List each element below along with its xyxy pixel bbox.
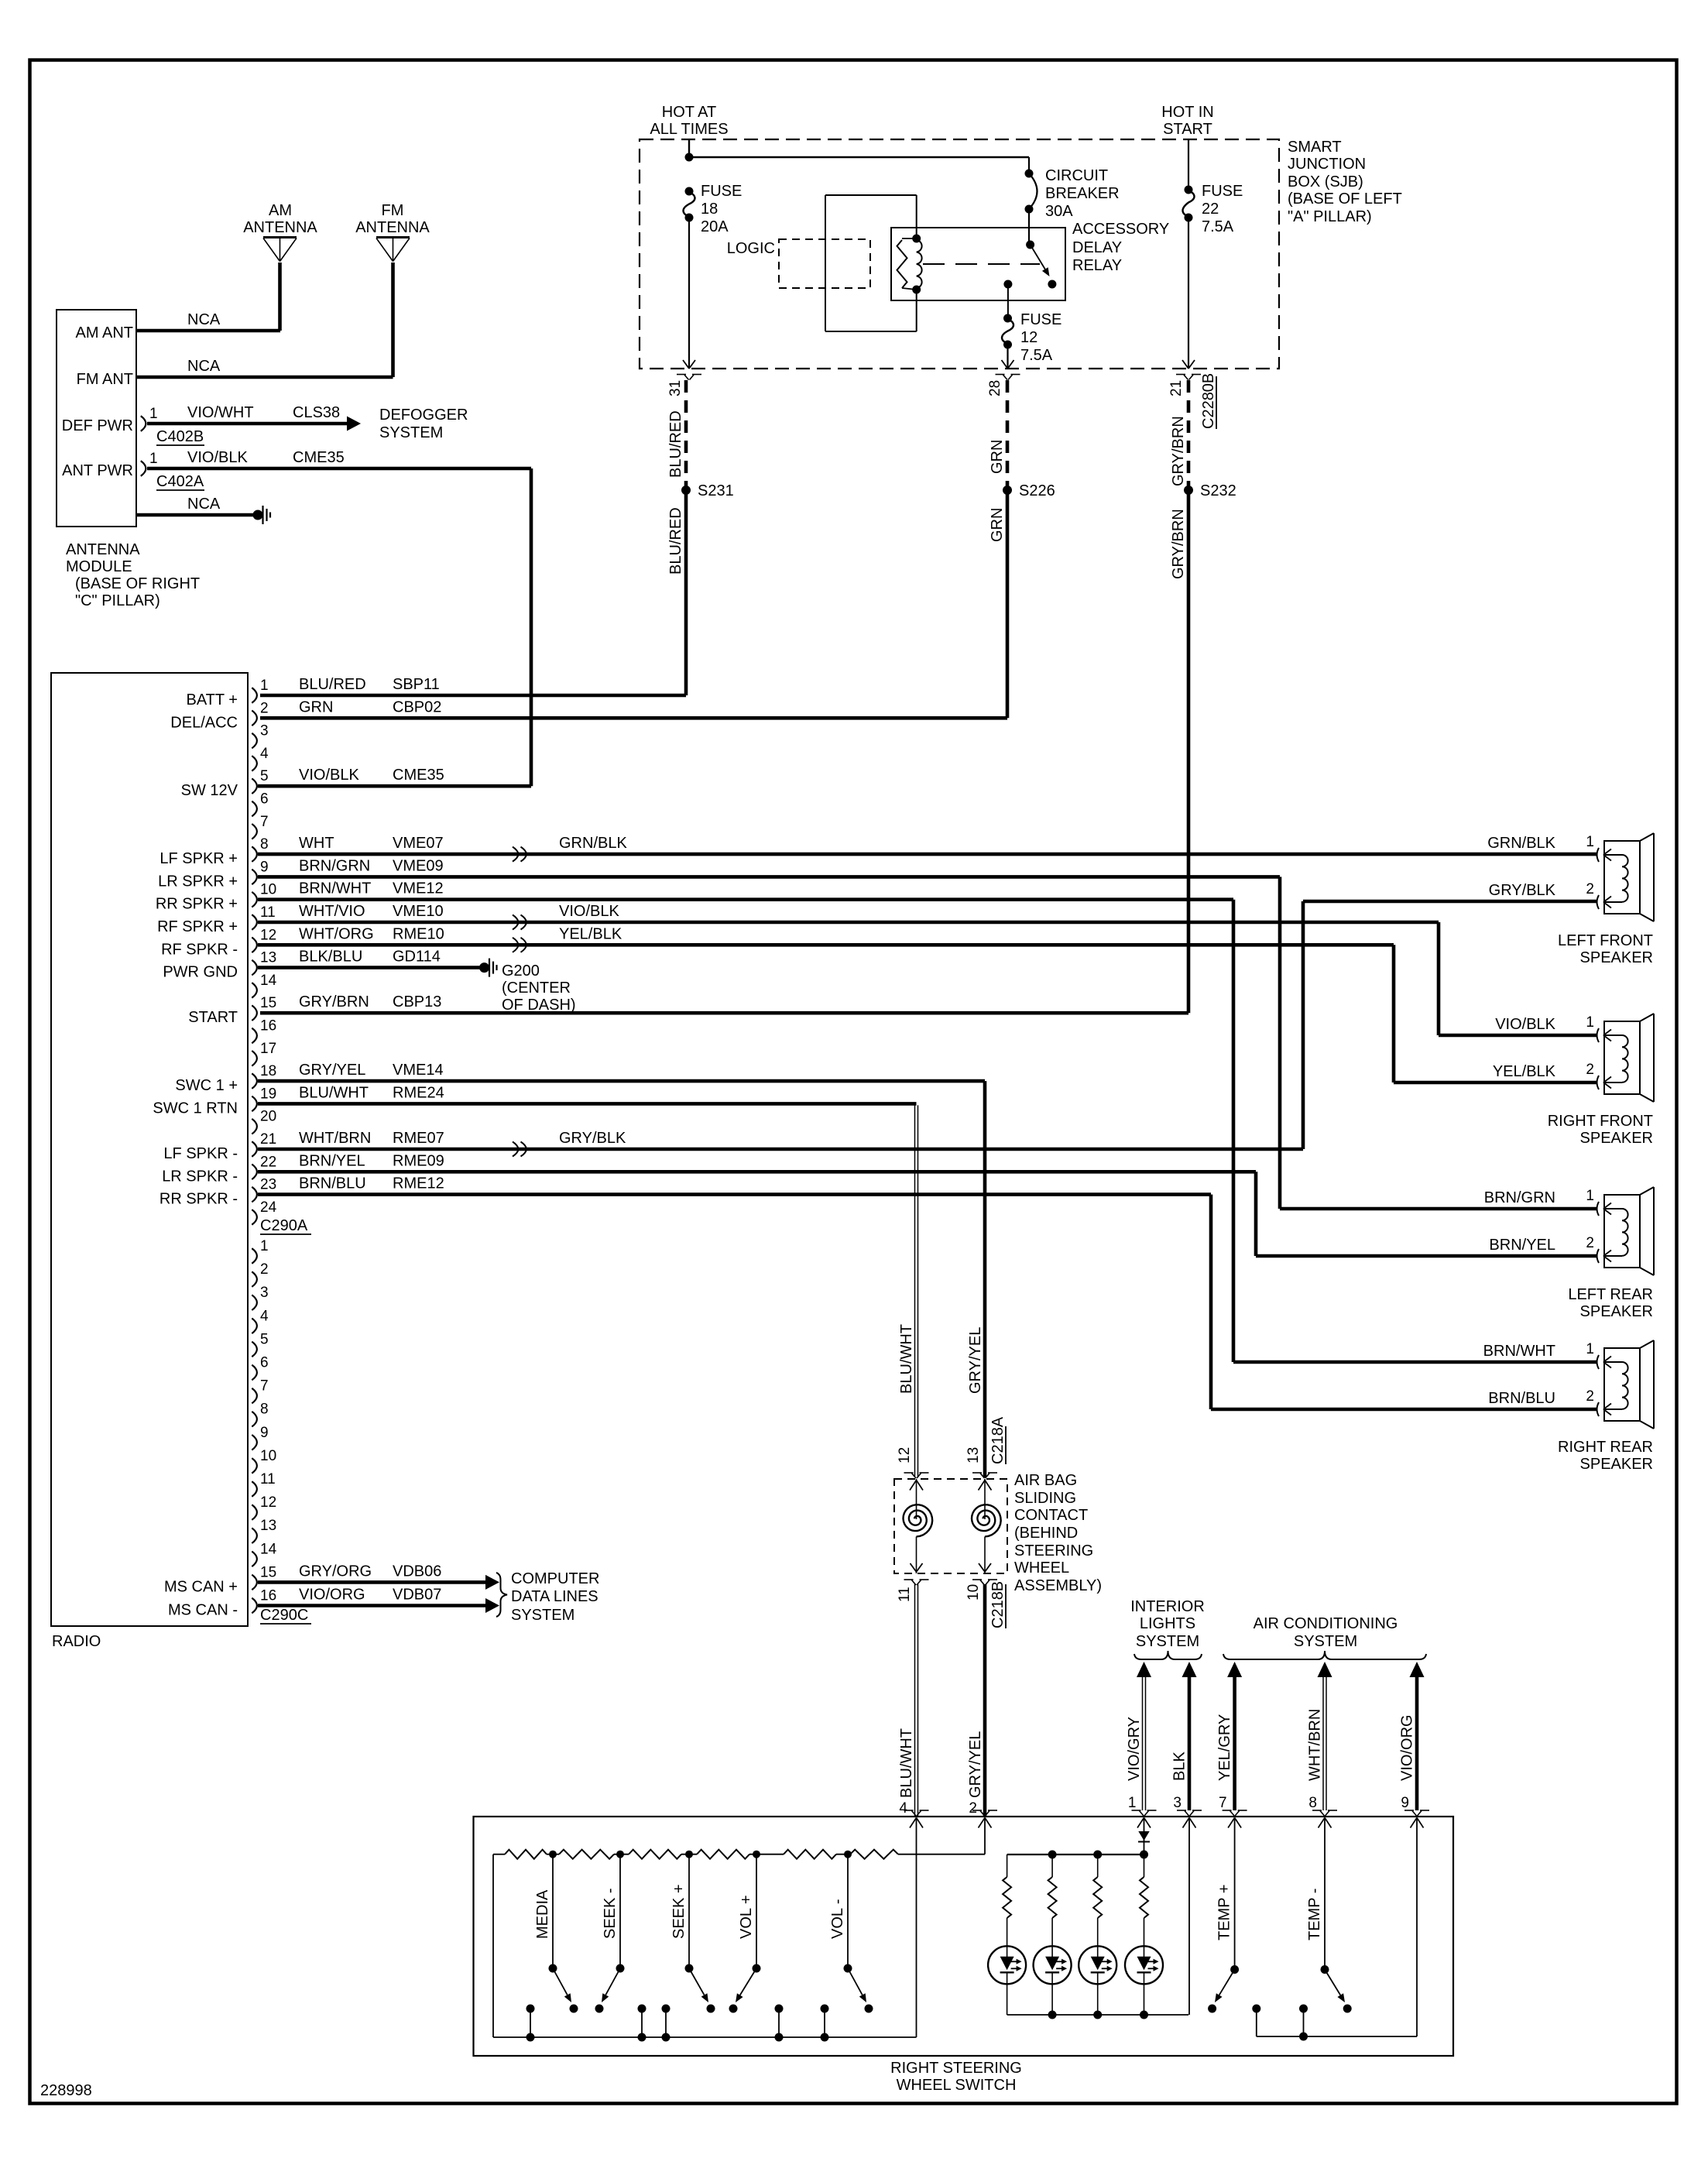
wire pin 18 GRY/YEL to steering wheel switch <box>258 1079 985 1083</box>
svg-text:VME07: VME07 <box>393 835 444 852</box>
chevrons pin 12 <box>513 938 519 952</box>
svg-text:CLS38: CLS38 <box>293 404 340 421</box>
wire pin 23 BRN/BLU to right rear speaker - <box>258 1192 1211 1196</box>
wire BRN/WHT into RR speaker <box>1233 1360 1597 1364</box>
fuse 18 20A <box>685 187 694 196</box>
svg-text:VIO/ORG: VIO/ORG <box>299 1587 365 1604</box>
svg-text:SWC 1 RTN: SWC 1 RTN <box>153 1100 238 1117</box>
wire pin 10 BRN/WHT to right rear speaker + <box>258 897 1233 901</box>
svg-text:3: 3 <box>260 723 269 739</box>
wire 28 GRN dashed <box>1006 380 1010 486</box>
svg-text:4: 4 <box>260 746 269 762</box>
svg-text:RME09: RME09 <box>393 1152 444 1169</box>
svg-text:VME14: VME14 <box>393 1062 444 1079</box>
connector mark wire 2 <box>972 1810 982 1811</box>
radio pin 6 (C290A) <box>252 801 257 817</box>
illumination LED 3 <box>1079 1946 1116 1984</box>
svg-text:SLIDING: SLIDING <box>1014 1490 1076 1507</box>
svg-text:BREAKER: BREAKER <box>1045 185 1120 202</box>
svg-text:18: 18 <box>260 1063 276 1079</box>
svg-text:GRY/BRN: GRY/BRN <box>1170 416 1187 486</box>
svg-text:ANTENNA: ANTENNA <box>243 219 317 236</box>
wire YEL/GRY to system (pin 7) <box>1227 1662 1242 1677</box>
wire VIO/BLK into RF speaker <box>1439 1034 1597 1038</box>
svg-text:GRY/BRN: GRY/BRN <box>1170 509 1187 579</box>
radio pin 11 (C290A) <box>252 914 257 930</box>
svg-text:S226: S226 <box>1019 482 1055 499</box>
svg-text:GRY/ORG: GRY/ORG <box>299 1563 372 1580</box>
ladder node SEEK+ <box>685 1851 693 1858</box>
svg-text:MS CAN +: MS CAN + <box>164 1578 238 1595</box>
pin 1 DEF PWR connector C402B <box>141 416 146 431</box>
wire 10 GRY/YEL to steering switch <box>983 1584 987 1817</box>
illumination LED 2 <box>1034 1946 1072 1984</box>
svg-text:2: 2 <box>260 700 269 716</box>
wire pin 21 WHT/BRN to left front speaker - <box>258 1148 1303 1151</box>
svg-text:LR SPKR -: LR SPKR - <box>162 1168 238 1185</box>
svg-text:BRN/WHT: BRN/WHT <box>1483 1343 1555 1360</box>
svg-text:17: 17 <box>260 1041 276 1057</box>
svg-text:BLU/RED: BLU/RED <box>667 507 684 575</box>
svg-text:1: 1 <box>1586 1188 1594 1204</box>
svg-text:GD114: GD114 <box>393 949 441 966</box>
svg-text:CBP02: CBP02 <box>393 698 441 715</box>
svg-text:11: 11 <box>260 1471 276 1487</box>
svg-text:7: 7 <box>1219 1795 1227 1811</box>
LED top bus <box>1007 1854 1144 1855</box>
ladder node VOL+ <box>753 1851 760 1858</box>
entry arrow into switch box <box>910 1818 917 1828</box>
radio pin 3 (C290C) <box>252 1295 257 1310</box>
wire DEF PWR VIO/WHT CLS38 <box>147 422 347 426</box>
wire CB to relay switch <box>1028 209 1030 245</box>
smart junction box (dashed) <box>640 139 1279 369</box>
entry arrow into switch box <box>1228 1818 1235 1828</box>
diode on VIO/GRY input <box>1144 1818 1145 1854</box>
svg-text:14: 14 <box>260 973 277 989</box>
svg-text:LIGHTS: LIGHTS <box>1140 1615 1195 1632</box>
svg-text:1: 1 <box>1586 1014 1594 1031</box>
switch VOL + <box>756 1854 757 1968</box>
svg-text:VME12: VME12 <box>393 880 444 897</box>
svg-text:6: 6 <box>260 1355 269 1371</box>
wire fuse 12 to exit 28 <box>1007 345 1008 368</box>
svg-text:JUNCTION: JUNCTION <box>1288 156 1366 173</box>
svg-text:7: 7 <box>260 814 269 830</box>
svg-text:10: 10 <box>965 1584 982 1601</box>
svg-text:2: 2 <box>1586 1062 1594 1078</box>
speaker body (BRN/WHT/BRN/BLU) <box>1604 1348 1640 1421</box>
svg-text:FUSE: FUSE <box>1020 311 1061 328</box>
svg-text:FUSE: FUSE <box>1202 183 1243 200</box>
svg-text:WHEEL: WHEEL <box>1014 1559 1069 1577</box>
connector marks at air bag contact bottom <box>904 1579 914 1580</box>
svg-text:FM: FM <box>382 202 404 219</box>
svg-text:VIO/BLK: VIO/BLK <box>1495 1016 1555 1033</box>
resistor ladder <box>493 1854 505 1855</box>
svg-text:START: START <box>1163 121 1212 138</box>
svg-text:MODULE: MODULE <box>66 558 132 575</box>
svg-text:SW 12V: SW 12V <box>181 782 238 799</box>
svg-text:C218A: C218A <box>989 1416 1007 1464</box>
svg-text:3: 3 <box>260 1285 269 1301</box>
svg-text:16: 16 <box>260 1018 276 1034</box>
svg-text:2: 2 <box>969 1800 977 1817</box>
switch SEEK + <box>688 1854 690 1968</box>
svg-text:FM ANT: FM ANT <box>77 371 133 388</box>
relay coil <box>912 235 921 243</box>
svg-text:12: 12 <box>1020 329 1037 346</box>
svg-text:18: 18 <box>701 201 718 218</box>
svg-text:NCA: NCA <box>187 311 221 328</box>
svg-text:CME35: CME35 <box>393 767 444 784</box>
svg-text:12: 12 <box>897 1447 913 1463</box>
speaker body (BRN/GRN/BRN/YEL) <box>1604 1195 1640 1268</box>
illumination LED 4 <box>1125 1946 1163 1984</box>
wire pin 9 BRN/GRN to left rear speaker + <box>258 875 1280 879</box>
svg-text:"C" PILLAR): "C" PILLAR) <box>75 592 160 609</box>
svg-text:VOL +: VOL + <box>738 1895 755 1939</box>
svg-text:DEL/ACC: DEL/ACC <box>170 714 238 731</box>
svg-text:RME12: RME12 <box>393 1175 444 1192</box>
svg-text:2: 2 <box>1586 881 1594 897</box>
svg-text:GRN/BLK: GRN/BLK <box>559 835 627 852</box>
svg-text:22: 22 <box>1202 201 1219 218</box>
LED bottom bus <box>1007 2014 1188 2016</box>
wire pin 8 WHT/GRN-BLK to left front speaker + <box>258 853 1597 856</box>
illumination resistor 3 <box>1097 1854 1099 1877</box>
svg-text:1: 1 <box>1128 1795 1137 1811</box>
svg-text:1: 1 <box>149 406 158 422</box>
radio pin 9 (C290A) <box>252 870 257 885</box>
svg-text:RME10: RME10 <box>393 925 444 942</box>
wire pin 12 WHT/ORG to right front speaker - <box>258 943 1394 947</box>
svg-text:BRN/GRN: BRN/GRN <box>299 857 370 874</box>
radio pin 14 (C290A) <box>252 983 257 998</box>
svg-text:14: 14 <box>260 1541 277 1557</box>
connector mark exit 28 <box>996 374 1005 376</box>
radio pin 20 (C290A) <box>252 1119 257 1134</box>
svg-text:WHT/BRN: WHT/BRN <box>1307 1709 1324 1781</box>
svg-text:VDB07: VDB07 <box>393 1587 441 1604</box>
ladder node SEEK- <box>616 1851 624 1858</box>
svg-text:BRN/BLU: BRN/BLU <box>1488 1390 1555 1407</box>
svg-text:BLK/BLU: BLK/BLU <box>299 949 362 966</box>
svg-text:C218B: C218B <box>989 1581 1007 1628</box>
wire 31 BLU/RED dashed <box>684 380 688 486</box>
svg-text:RIGHT REAR: RIGHT REAR <box>1558 1439 1653 1456</box>
svg-text:2: 2 <box>260 1261 269 1278</box>
brace interior lights system <box>1134 1651 1202 1659</box>
wire AM ANT NCA <box>136 329 280 333</box>
fuse 22 7.5A <box>1185 186 1193 194</box>
svg-text:BATT +: BATT + <box>186 691 238 709</box>
svg-text:SYSTEM: SYSTEM <box>511 1607 574 1624</box>
svg-text:GRN/BLK: GRN/BLK <box>1487 835 1555 852</box>
svg-text:VIO/ORG: VIO/ORG <box>1399 1714 1416 1781</box>
svg-text:5: 5 <box>260 1331 269 1347</box>
svg-text:BRN/YEL: BRN/YEL <box>299 1152 365 1169</box>
svg-text:4: 4 <box>899 1800 907 1817</box>
svg-text:DEFOGGER: DEFOGGER <box>379 407 468 424</box>
radio pin 13 (C290C) <box>252 1528 257 1543</box>
svg-text:GRY/BLK: GRY/BLK <box>1489 882 1556 899</box>
entry arrow into switch box <box>1319 1818 1326 1828</box>
svg-text:BRN/YEL: BRN/YEL <box>1489 1237 1555 1254</box>
svg-text:SWC 1 +: SWC 1 + <box>175 1077 238 1094</box>
wire VIO/GRY to system (pin 1) <box>1137 1662 1151 1677</box>
switch SEEK - <box>619 1854 621 1968</box>
speaker body (GRN/BLK/GRY/BLK) <box>1604 841 1640 914</box>
svg-text:BRN/WHT: BRN/WHT <box>299 880 371 897</box>
svg-text:BLU/RED: BLU/RED <box>299 676 366 693</box>
svg-text:C2280B: C2280B <box>1200 373 1217 429</box>
svg-text:13: 13 <box>260 1518 276 1534</box>
circuit breaker 30A <box>1025 170 1034 178</box>
svg-text:21: 21 <box>260 1131 276 1148</box>
wire fuse 22 to exit 21 <box>1188 218 1189 368</box>
radio pin 5 (C290C) <box>252 1342 257 1357</box>
svg-text:COMPUTER: COMPUTER <box>511 1570 599 1587</box>
wire FM ANT NCA <box>136 376 393 379</box>
wire BRN/YEL into LR speaker <box>1256 1254 1597 1258</box>
wire 21 GRY/BRN dashed <box>1187 380 1191 486</box>
radio pin 6 (C290C) <box>252 1365 257 1381</box>
chevrons pin 21 <box>513 1142 519 1157</box>
switch common bus <box>493 2036 917 2038</box>
svg-text:LEFT FRONT: LEFT FRONT <box>1558 932 1653 949</box>
entry arrow into switch box <box>1137 1818 1144 1828</box>
svg-text:MEDIA: MEDIA <box>534 1889 551 1939</box>
splice S231 <box>681 485 691 495</box>
wire fuse 18 to exit 31 <box>688 218 690 368</box>
wire ANT PWR VIO/BLK CME35 <box>147 467 531 471</box>
radio box <box>51 673 248 1626</box>
logic box (dashed) <box>779 239 870 288</box>
node LED branch 3 <box>1093 1851 1102 1859</box>
wire VIO/ORG to system (pin 9) <box>1410 1662 1425 1677</box>
svg-text:RR SPKR +: RR SPKR + <box>156 896 238 913</box>
svg-text:SBP11: SBP11 <box>393 676 440 693</box>
wire BRN/BLU into RR speaker <box>1211 1408 1597 1412</box>
radio pin 18 (C290A) <box>252 1073 257 1089</box>
ground G200 <box>479 962 489 973</box>
svg-text:CONTACT: CONTACT <box>1014 1507 1088 1524</box>
svg-text:C290A: C290A <box>260 1217 308 1234</box>
svg-text:INTERIOR: INTERIOR <box>1130 1598 1205 1615</box>
svg-text:28: 28 <box>987 380 1003 396</box>
svg-text:STEERING: STEERING <box>1014 1542 1093 1559</box>
clock spring right (wire 13) <box>979 1481 986 1491</box>
connector mark wire 4 <box>904 1810 914 1811</box>
svg-text:LR SPKR +: LR SPKR + <box>158 873 238 890</box>
svg-text:VDB06: VDB06 <box>393 1563 441 1580</box>
wire BRN/GRN into LR speaker <box>1280 1207 1597 1211</box>
svg-text:30A: 30A <box>1045 203 1073 220</box>
svg-text:(BASE OF RIGHT: (BASE OF RIGHT <box>75 575 200 592</box>
svg-text:1: 1 <box>260 678 269 694</box>
svg-text:23: 23 <box>260 1177 276 1193</box>
splice S226 <box>1003 485 1012 495</box>
radio pin 4 (C290A) <box>252 756 257 771</box>
brace computer data lines <box>496 1573 507 1617</box>
connector mark exit 31 <box>677 374 686 376</box>
svg-text:BLU/WHT: BLU/WHT <box>898 1728 915 1798</box>
wire BLK to system (pin 3) <box>1182 1662 1197 1677</box>
svg-text:19: 19 <box>260 1086 276 1102</box>
svg-text:GRY/YEL: GRY/YEL <box>967 1327 984 1394</box>
svg-text:7: 7 <box>260 1378 269 1395</box>
radio pin 8 (C290A) <box>252 846 257 862</box>
svg-text:13: 13 <box>260 950 276 966</box>
svg-text:1: 1 <box>1586 1341 1594 1357</box>
svg-text:FUSE: FUSE <box>701 183 742 200</box>
TEMP - switch <box>1324 1818 1326 1970</box>
svg-text:VIO/BLK: VIO/BLK <box>299 767 359 784</box>
svg-text:RR SPKR -: RR SPKR - <box>159 1191 238 1208</box>
wire pin 22 BRN/YEL to left rear speaker - <box>258 1170 1256 1174</box>
illumination resistor 4 <box>1144 1854 1145 1877</box>
svg-text:(BASE OF LEFT: (BASE OF LEFT <box>1288 190 1402 208</box>
svg-text:ACCESSORY: ACCESSORY <box>1072 221 1169 238</box>
radio pin 19 (C290A) <box>252 1096 257 1112</box>
svg-text:SPEAKER: SPEAKER <box>1580 1130 1653 1147</box>
svg-text:20A: 20A <box>701 218 729 235</box>
wire hot-at-all-times entry <box>688 139 690 157</box>
wire hot-in-start entry <box>1188 139 1189 190</box>
wire MS CAN - VIO/ORG VDB07 <box>258 1604 485 1607</box>
svg-text:DELAY: DELAY <box>1072 239 1122 256</box>
radio pin 15 (C290C) <box>252 1575 257 1590</box>
svg-text:SPEAKER: SPEAKER <box>1580 949 1653 966</box>
wire pin 19 BLU/WHT to air bag sliding contact <box>258 1102 917 1106</box>
svg-text:7.5A: 7.5A <box>1202 218 1234 235</box>
wire BLU/RED to radio pin 1 <box>684 490 688 695</box>
svg-text:8: 8 <box>260 836 269 853</box>
svg-text:HOT AT: HOT AT <box>662 104 716 121</box>
radio pin 5 (C290A) <box>252 778 257 794</box>
svg-text:CBP13: CBP13 <box>393 993 441 1010</box>
svg-text:BLU/RED: BLU/RED <box>667 410 684 478</box>
svg-text:BRN/BLU: BRN/BLU <box>299 1175 366 1192</box>
svg-text:LF SPKR +: LF SPKR + <box>159 850 238 867</box>
svg-text:OF DASH): OF DASH) <box>502 997 576 1014</box>
svg-text:GRY/BLK: GRY/BLK <box>559 1130 626 1147</box>
antenna module box <box>57 310 136 527</box>
chevrons pin 8 <box>513 847 519 862</box>
right steering wheel switch box <box>474 1817 1454 2056</box>
svg-text:RIGHT STEERING: RIGHT STEERING <box>890 2060 1022 2077</box>
wire YEL/BLK into RF speaker <box>1394 1081 1597 1085</box>
wire 2 GRY/YEL inside box <box>984 1818 986 1854</box>
svg-text:SYSTEM: SYSTEM <box>1136 1633 1199 1650</box>
svg-text:WHT/VIO: WHT/VIO <box>299 903 365 920</box>
node LED bottom 4 <box>1140 2011 1148 2019</box>
svg-text:21: 21 <box>1168 380 1185 396</box>
radio pin 10 (C290A) <box>252 892 257 908</box>
wire CME35 vertical to radio pin 5 <box>530 468 533 786</box>
radio pin 13 (C290A) <box>252 960 257 976</box>
relay coil feedback loop <box>825 194 917 196</box>
svg-text:6: 6 <box>260 791 269 808</box>
svg-text:31: 31 <box>667 380 684 396</box>
svg-text:10: 10 <box>260 1448 276 1464</box>
wire pin 13 BLK/BLU to ground G200 <box>258 966 480 969</box>
svg-text:228998: 228998 <box>40 2082 92 2099</box>
svg-text:8: 8 <box>1308 1795 1317 1811</box>
node junction at fuse 18 top <box>685 153 694 162</box>
radio pin 8 (C290C) <box>252 1412 257 1427</box>
svg-text:WHT/ORG: WHT/ORG <box>299 925 374 942</box>
svg-text:VIO/BLK: VIO/BLK <box>187 449 248 466</box>
svg-text:13: 13 <box>965 1447 982 1463</box>
svg-text:S232: S232 <box>1200 482 1236 499</box>
svg-text:AM ANT: AM ANT <box>76 324 133 341</box>
svg-text:15: 15 <box>260 1564 276 1580</box>
svg-text:MS CAN -: MS CAN - <box>168 1602 238 1619</box>
svg-text:NCA: NCA <box>187 496 221 513</box>
svg-text:(CENTER: (CENTER <box>502 980 571 997</box>
svg-text:SYSTEM: SYSTEM <box>379 424 443 441</box>
svg-text:GRY/YEL: GRY/YEL <box>299 1062 365 1079</box>
ladder node MEDIA <box>549 1851 557 1858</box>
svg-text:G200: G200 <box>502 962 540 980</box>
svg-text:AIR BAG: AIR BAG <box>1014 1472 1077 1489</box>
radio pin 14 (C290C) <box>252 1552 257 1567</box>
svg-text:GRN: GRN <box>989 440 1006 474</box>
svg-text:NCA: NCA <box>187 358 221 375</box>
svg-text:GRN: GRN <box>989 508 1006 542</box>
svg-text:C402A: C402A <box>156 473 204 490</box>
svg-text:YEL/BLK: YEL/BLK <box>1493 1063 1556 1080</box>
svg-text:TEMP +: TEMP + <box>1216 1885 1233 1940</box>
svg-text:YEL/BLK: YEL/BLK <box>559 925 622 942</box>
wire pin 11 WHT/VIO to right front speaker + <box>258 921 1439 925</box>
svg-text:VME10: VME10 <box>393 903 444 920</box>
switch VOL - <box>847 1854 849 1968</box>
svg-text:RELAY: RELAY <box>1072 257 1122 274</box>
accessory delay relay box <box>891 228 1065 300</box>
svg-text:2: 2 <box>1586 1388 1594 1405</box>
svg-text:S231: S231 <box>698 482 734 499</box>
svg-text:VIO/BLK: VIO/BLK <box>559 903 619 920</box>
svg-text:AM: AM <box>269 202 292 219</box>
svg-text:20: 20 <box>260 1109 276 1125</box>
radio pin 16 (C290C) <box>252 1598 257 1614</box>
svg-text:RME24: RME24 <box>393 1084 444 1101</box>
svg-text:CME35: CME35 <box>293 449 345 466</box>
wire GRY/BRN to radio pin 15 <box>1187 490 1191 1013</box>
ladder left leg to common bus <box>492 1854 494 2037</box>
svg-text:RIGHT FRONT: RIGHT FRONT <box>1548 1113 1653 1130</box>
svg-text:9: 9 <box>1401 1795 1409 1811</box>
svg-text:HOT IN: HOT IN <box>1161 104 1213 121</box>
node LED bottom 2 <box>1048 2011 1057 2019</box>
radio pin 2 (C290C) <box>252 1271 257 1287</box>
svg-text:DEF PWR: DEF PWR <box>62 417 133 434</box>
radio pin 3 (C290A) <box>252 733 257 749</box>
radio pin 4 (C290C) <box>252 1319 257 1334</box>
connector marks at air bag contact top <box>904 1472 914 1474</box>
connector mark exit 21 C2280B <box>1176 374 1185 376</box>
entry arrow into switch box <box>1411 1818 1418 1828</box>
pin 1 ANT PWR connector C402A <box>141 461 146 476</box>
svg-text:START: START <box>188 1009 238 1026</box>
wire 9 VIO/ORG inside box <box>1416 1818 1418 2036</box>
wire NCA to ground <box>136 513 253 517</box>
node LED branch 4 (VIO/GRY) <box>1140 1851 1148 1859</box>
svg-text:15: 15 <box>260 995 276 1011</box>
